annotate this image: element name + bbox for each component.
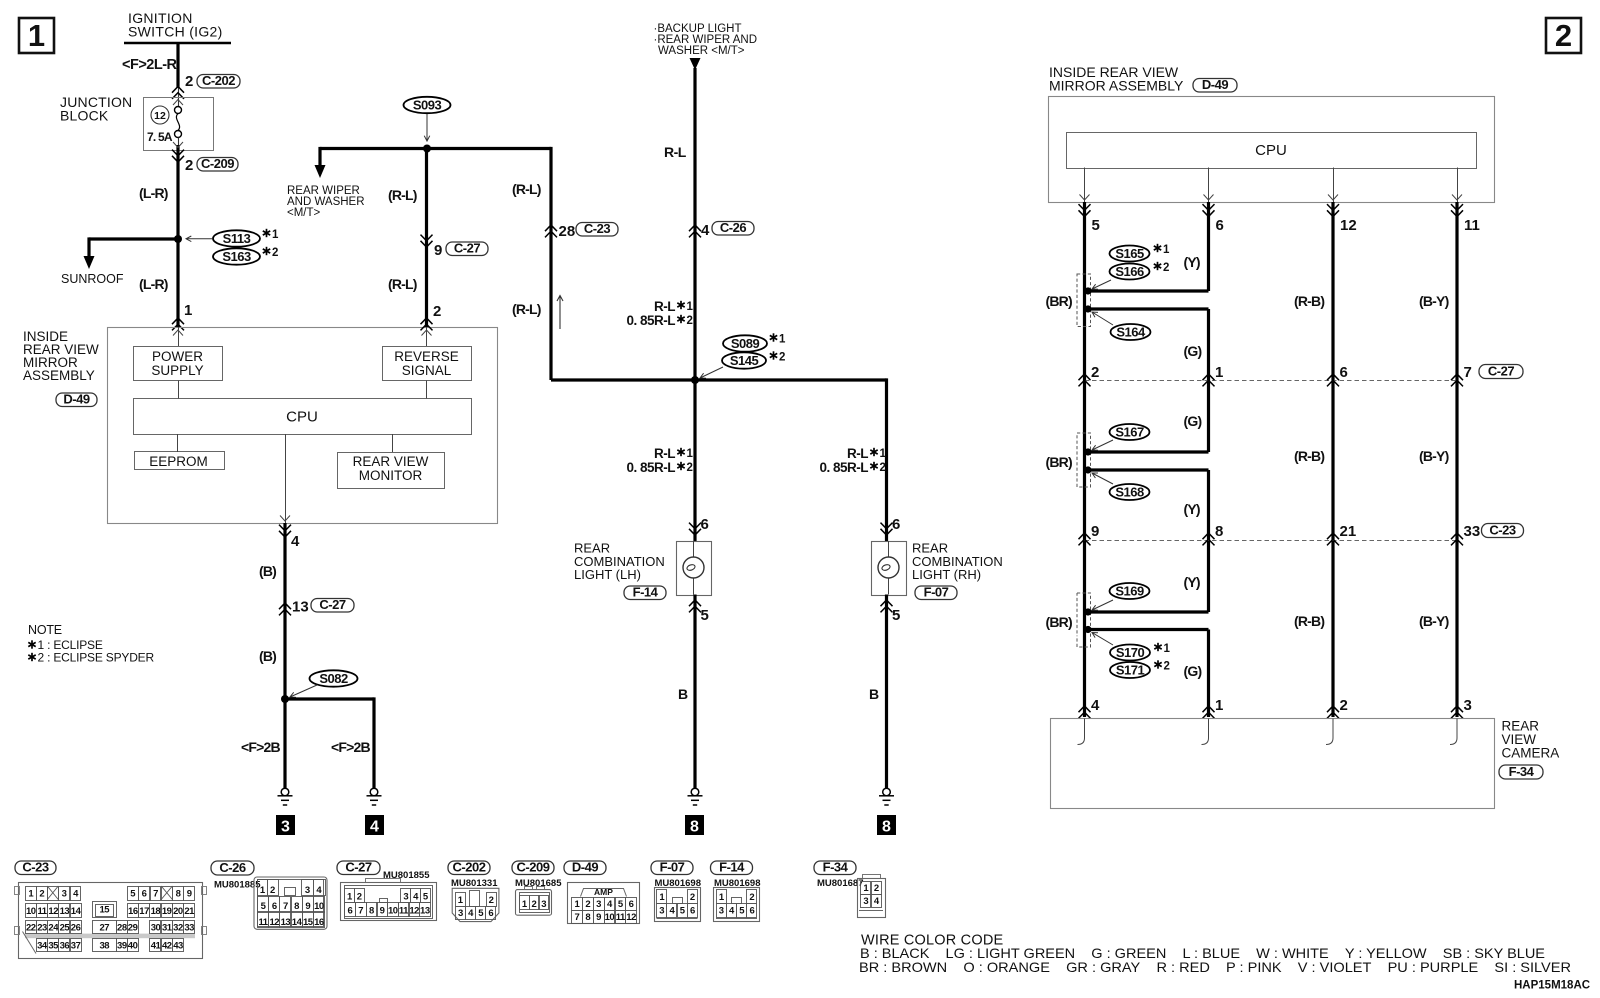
svg-text:MU801855: MU801855 <box>383 870 430 881</box>
wire B LH to ground <box>693 595 696 789</box>
rear combination light RH <box>872 542 907 596</box>
svg-text:35: 35 <box>48 940 59 951</box>
svg-text:(R-L): (R-L) <box>512 301 541 317</box>
svg-text:(R-L): (R-L) <box>388 187 417 203</box>
svg-text:13: 13 <box>292 599 309 616</box>
wire (B) to ground splice <box>283 523 286 699</box>
svg-text:5: 5 <box>892 607 900 624</box>
wire pin6 segments <box>1207 202 1210 291</box>
svg-text:12: 12 <box>154 110 166 122</box>
connector C-27 pin 9 <box>421 235 433 247</box>
connector F-34 diagram <box>814 861 856 875</box>
svg-text:9: 9 <box>596 912 601 923</box>
svg-text:F-07: F-07 <box>924 585 949 600</box>
rear view camera pins <box>1079 706 1091 718</box>
svg-text:B: B <box>869 686 879 702</box>
svg-text:12: 12 <box>626 912 636 923</box>
svg-text:(G): (G) <box>1184 343 1202 359</box>
svg-text:2: 2 <box>1091 364 1099 381</box>
svg-text:8: 8 <box>585 912 590 923</box>
connector C-26 pin 4 <box>689 225 701 237</box>
svg-text:C-209: C-209 <box>201 156 234 171</box>
svg-text:6: 6 <box>1216 217 1224 234</box>
svg-text:S166: S166 <box>1115 264 1144 279</box>
svg-text:R-L: R-L <box>654 299 675 314</box>
svg-text:13: 13 <box>420 906 430 917</box>
svg-text:C-27: C-27 <box>1488 364 1514 379</box>
svg-text:8: 8 <box>882 819 891 836</box>
svg-text:C-23: C-23 <box>584 221 610 236</box>
svg-text:11: 11 <box>616 912 626 923</box>
svg-text:F-07: F-07 <box>660 860 685 875</box>
svg-text:0. 85R-L: 0. 85R-L <box>626 460 675 475</box>
svg-text:(R-L): (R-L) <box>512 181 541 197</box>
svg-text:(R-B): (R-B) <box>1294 613 1324 629</box>
svg-text:7: 7 <box>358 906 363 917</box>
connector line C-27 (dashed) <box>1085 380 1458 382</box>
svg-text:MU801687: MU801687 <box>817 878 863 889</box>
svg-text:S113: S113 <box>223 231 251 246</box>
svg-text:9: 9 <box>1091 523 1099 540</box>
svg-text:2: 2 <box>489 895 494 906</box>
svg-text:C-26: C-26 <box>219 860 245 875</box>
svg-text:28: 28 <box>559 223 576 240</box>
svg-text:6: 6 <box>142 889 147 900</box>
svg-text:28: 28 <box>117 922 127 933</box>
svg-text:1: 1 <box>687 448 694 460</box>
splice S093 <box>404 97 451 113</box>
svg-text:(B-Y): (B-Y) <box>1419 448 1449 464</box>
svg-text:POWER: POWER <box>152 349 203 364</box>
svg-text:39: 39 <box>117 940 127 951</box>
svg-text:(B): (B) <box>259 563 276 579</box>
svg-text:(R-L): (R-L) <box>388 276 417 292</box>
svg-text:BLOCK: BLOCK <box>60 108 109 124</box>
svg-text:(G): (G) <box>1184 413 1202 429</box>
svg-text:<M/T>: <M/T> <box>287 207 321 219</box>
svg-text:C-23: C-23 <box>1489 523 1515 538</box>
svg-text:11: 11 <box>1464 217 1480 234</box>
page index box 2 <box>1546 18 1581 53</box>
svg-text:2: 2 <box>1555 18 1572 53</box>
page index box 1 <box>19 18 54 53</box>
svg-text:9: 9 <box>380 906 385 917</box>
svg-text:2: 2 <box>357 891 362 902</box>
connector C-202 diagram <box>448 861 490 875</box>
svg-text:22: 22 <box>26 922 36 933</box>
svg-text:3: 3 <box>281 819 290 836</box>
svg-text:C-27: C-27 <box>319 597 345 612</box>
svg-text:S167: S167 <box>1115 425 1144 440</box>
svg-text:S168: S168 <box>1115 485 1144 500</box>
svg-text:3: 3 <box>719 906 724 917</box>
svg-text:3: 3 <box>541 899 546 910</box>
svg-text:(R-B): (R-B) <box>1294 448 1324 464</box>
svg-text:2: 2 <box>433 303 441 320</box>
branch wire to sunroof <box>89 237 178 240</box>
arrow S113 to node <box>186 236 212 242</box>
svg-text:33: 33 <box>1464 523 1481 540</box>
svg-text:16: 16 <box>314 917 324 928</box>
svg-text:ASSEMBLY: ASSEMBLY <box>23 368 95 383</box>
svg-text:R-L: R-L <box>654 446 675 461</box>
svg-text:2: 2 <box>272 247 278 259</box>
svg-text:17: 17 <box>139 906 149 917</box>
svg-text:R-L: R-L <box>847 446 868 461</box>
svg-text:6: 6 <box>348 906 353 917</box>
svg-text:C-202: C-202 <box>202 73 235 88</box>
svg-text:43: 43 <box>173 940 183 951</box>
svg-text:CAMERA: CAMERA <box>1502 746 1560 761</box>
svg-text:REVERSE: REVERSE <box>394 349 459 364</box>
svg-text:(B): (B) <box>259 648 276 664</box>
svg-text:1: 1 <box>1215 364 1223 381</box>
svg-text:7: 7 <box>283 901 288 912</box>
svg-text:MIRROR ASSEMBLY: MIRROR ASSEMBLY <box>1049 78 1184 94</box>
svg-text:20: 20 <box>173 906 183 917</box>
svg-text:3: 3 <box>305 885 310 896</box>
ground (right) <box>370 788 378 796</box>
node S165/S166 <box>1084 287 1091 294</box>
svg-text:D-49: D-49 <box>572 860 598 875</box>
ground ref 8 RH <box>877 815 896 835</box>
fuse 12 (7.5A) <box>151 106 169 124</box>
svg-text:4: 4 <box>370 819 379 836</box>
svg-text:40: 40 <box>128 940 138 951</box>
svg-text:7. 5A: 7. 5A <box>147 130 173 144</box>
splice S163 (*2) <box>213 248 260 264</box>
wire B RH to ground <box>885 595 888 789</box>
svg-text:BR : BROWN O : ORANGE GR: BR : BROWN O : ORANGE GR : GRAY R : RED … <box>859 959 1571 975</box>
pin 5 LH <box>689 600 701 612</box>
ground ref 8 LH <box>685 815 704 835</box>
svg-text:5: 5 <box>701 607 709 624</box>
connector D-49 diagram <box>564 861 606 875</box>
svg-text:9: 9 <box>434 242 442 259</box>
svg-text:MONITOR: MONITOR <box>359 468 423 483</box>
svg-text:MU801685: MU801685 <box>515 878 562 889</box>
ground branch wires <box>285 697 374 700</box>
svg-text:2: 2 <box>687 315 693 327</box>
svg-text:27: 27 <box>99 922 109 933</box>
connector C-209 diagram <box>512 861 554 875</box>
svg-text:3: 3 <box>863 896 868 907</box>
svg-text:1: 1 <box>779 334 786 346</box>
svg-text:6: 6 <box>629 899 634 910</box>
cpu output stubs <box>1084 168 1086 203</box>
svg-text:C-209: C-209 <box>517 860 550 875</box>
svg-text:S145: S145 <box>730 353 759 368</box>
svg-text:19: 19 <box>162 906 172 917</box>
svg-text:10: 10 <box>26 906 36 917</box>
svg-text:D-49: D-49 <box>63 392 89 407</box>
svg-text:30: 30 <box>151 922 161 933</box>
svg-text:(BR): (BR) <box>1046 454 1072 470</box>
node S168 <box>1084 466 1091 473</box>
svg-text:6: 6 <box>892 516 900 533</box>
wire pin11 (B-Y) full drop <box>1455 202 1458 717</box>
svg-text:3: 3 <box>1464 697 1472 714</box>
splice S113 (*1) <box>213 230 260 246</box>
svg-text:7: 7 <box>575 912 580 923</box>
ignition switch bus line <box>124 42 231 45</box>
svg-text:S171: S171 <box>1116 663 1145 678</box>
node S167 <box>1084 448 1091 455</box>
svg-text:10: 10 <box>605 912 615 923</box>
svg-text:S082: S082 <box>319 671 348 686</box>
svg-text:2: 2 <box>39 889 44 900</box>
svg-text:2: 2 <box>1163 262 1169 274</box>
splice S166 (*2) <box>1110 264 1150 280</box>
svg-text:S165: S165 <box>1115 246 1144 261</box>
svg-text:HAP15M18AC: HAP15M18AC <box>1514 980 1590 992</box>
svg-text:31: 31 <box>162 922 173 933</box>
svg-text:1: 1 <box>1215 697 1223 714</box>
svg-text:3: 3 <box>62 889 67 900</box>
svg-text:C-27: C-27 <box>345 860 371 875</box>
pins 5 6 12 11 <box>1079 204 1091 216</box>
svg-text:6: 6 <box>1340 364 1348 381</box>
svg-text:37: 37 <box>71 940 81 951</box>
svg-text:CPU: CPU <box>1255 142 1287 159</box>
wire IG2 to junction block <box>176 43 179 88</box>
svg-text:2: 2 <box>185 157 193 174</box>
svg-text:42: 42 <box>162 940 172 951</box>
connector chevron C-202 <box>172 87 184 99</box>
svg-text:12: 12 <box>409 906 419 917</box>
svg-text:C-27: C-27 <box>454 241 480 256</box>
svg-text:S169: S169 <box>1115 584 1144 599</box>
svg-text:1: 1 <box>880 448 887 460</box>
splice S171 (*2) <box>1110 662 1150 678</box>
svg-text:SWITCH (IG2): SWITCH (IG2) <box>128 24 223 40</box>
svg-text:F-14: F-14 <box>633 585 659 600</box>
connector F-07 diagram <box>651 861 693 875</box>
svg-text:4: 4 <box>701 222 710 239</box>
svg-text:13: 13 <box>60 906 70 917</box>
node S169 <box>1084 608 1091 615</box>
svg-text:38: 38 <box>99 940 109 951</box>
svg-text:24: 24 <box>48 922 59 933</box>
svg-text:29: 29 <box>128 922 138 933</box>
svg-text:(L-R): (L-R) <box>139 276 168 292</box>
svg-text:7: 7 <box>153 889 158 900</box>
current direction arrow <box>557 296 563 330</box>
ground ref 3 <box>276 815 295 835</box>
connector C-23 diagram <box>15 861 56 875</box>
splice S089 / S145 <box>723 335 767 351</box>
ground (left) <box>281 788 289 796</box>
svg-text:9: 9 <box>305 901 310 912</box>
svg-text:(Y): (Y) <box>1184 574 1200 590</box>
svg-text:23: 23 <box>37 922 47 933</box>
feed arrow <box>690 58 701 70</box>
svg-text:3: 3 <box>659 906 664 917</box>
horizontal wire into junction S089 <box>551 378 695 381</box>
svg-text:9: 9 <box>187 889 192 900</box>
svg-text:F-14: F-14 <box>719 860 745 875</box>
svg-text:8: 8 <box>294 901 299 912</box>
splice S165 (*1) <box>1110 246 1150 262</box>
svg-text:1: 1 <box>1164 643 1171 655</box>
svg-text:F-34: F-34 <box>1509 764 1535 779</box>
svg-text:2: 2 <box>690 892 695 903</box>
splice S170 (*1) <box>1110 645 1150 661</box>
eeprom block <box>135 452 225 470</box>
svg-text:6: 6 <box>690 906 695 917</box>
svg-text:26: 26 <box>71 922 81 933</box>
svg-text:41: 41 <box>151 940 162 951</box>
svg-text:(BR): (BR) <box>1046 293 1072 309</box>
svg-text:14: 14 <box>292 917 303 928</box>
svg-text:11: 11 <box>399 906 409 917</box>
svg-text:S170: S170 <box>1116 645 1145 660</box>
svg-text:EEPROM: EEPROM <box>149 454 208 469</box>
svg-text:2: 2 <box>585 899 590 910</box>
svg-text:2 : ECLIPSE SPYDER: 2 : ECLIPSE SPYDER <box>38 651 155 665</box>
svg-text:2: 2 <box>1164 661 1170 673</box>
wire pin5 (BR) full drop <box>1083 202 1086 717</box>
svg-text:32: 32 <box>173 922 183 933</box>
svg-text:S093: S093 <box>413 98 442 113</box>
svg-text:10: 10 <box>388 906 398 917</box>
svg-text:12: 12 <box>269 917 279 928</box>
ground ref 4 <box>365 815 384 835</box>
cpu block (right) <box>1067 133 1477 169</box>
svg-text:18: 18 <box>151 906 161 917</box>
svg-text:4: 4 <box>1091 697 1100 714</box>
svg-text:<F>2L-R: <F>2L-R <box>122 57 178 73</box>
svg-text:2: 2 <box>687 462 693 474</box>
svg-text:CPU: CPU <box>286 409 318 426</box>
svg-text:13: 13 <box>281 917 291 928</box>
svg-text:MU801331: MU801331 <box>451 878 498 889</box>
svg-text:12: 12 <box>1340 217 1357 234</box>
svg-text:8: 8 <box>176 889 181 900</box>
svg-text:D-49: D-49 <box>1202 77 1228 92</box>
svg-text:2: 2 <box>270 885 275 896</box>
splice S169 <box>1110 583 1150 599</box>
connector line C-23 (dashed) <box>1085 540 1458 542</box>
pin 5 RH <box>881 600 893 612</box>
svg-text:6: 6 <box>701 516 709 533</box>
svg-text:REAR VIEW: REAR VIEW <box>353 454 429 469</box>
connector F-14 diagram <box>711 861 753 875</box>
splice S164 <box>1111 324 1151 340</box>
svg-text:S164: S164 <box>1116 325 1146 340</box>
svg-text:0. 85R-L: 0. 85R-L <box>626 313 675 328</box>
svg-text:S163: S163 <box>222 249 251 264</box>
ground RH <box>883 788 891 796</box>
svg-text:C-23: C-23 <box>22 860 48 875</box>
power supply block <box>134 347 223 381</box>
svg-text:AMP: AMP <box>594 887 613 897</box>
svg-text:LIGHT (RH): LIGHT (RH) <box>912 567 981 582</box>
node S170/S171 <box>1084 626 1091 633</box>
wire to C-23 pin 28 <box>549 147 552 380</box>
svg-text:NOTE: NOTE <box>28 623 62 637</box>
svg-text:SUNROOF: SUNROOF <box>61 272 124 286</box>
horizontal feed wire <box>320 147 551 150</box>
svg-text:F-34: F-34 <box>823 860 849 875</box>
wire junction to LH light <box>693 380 696 541</box>
svg-text:(B-Y): (B-Y) <box>1419 613 1449 629</box>
rear view camera box <box>1051 719 1495 809</box>
svg-text:7: 7 <box>1464 364 1472 381</box>
svg-text:8: 8 <box>1215 523 1223 540</box>
svg-text:3: 3 <box>596 899 601 910</box>
svg-text:(Y): (Y) <box>1184 501 1200 517</box>
pin 4 below assembly <box>279 525 291 537</box>
pin 2 / connector C-209 <box>172 150 184 162</box>
svg-text:(Y): (Y) <box>1184 254 1200 270</box>
svg-text:5: 5 <box>1092 217 1100 234</box>
svg-text:15: 15 <box>99 905 110 916</box>
svg-text:2: 2 <box>532 899 537 910</box>
wire R-L down <box>693 68 696 380</box>
svg-text:2: 2 <box>779 352 785 364</box>
svg-text:1: 1 <box>184 302 192 319</box>
connector C-27 diagram <box>337 861 380 875</box>
internal wires <box>178 327 180 346</box>
svg-text:(B-Y): (B-Y) <box>1419 293 1449 309</box>
svg-text:B: B <box>678 686 688 702</box>
svg-text:(R-B): (R-B) <box>1294 293 1324 309</box>
wire pin12 (R-B) full drop <box>1331 202 1334 717</box>
svg-text:3: 3 <box>403 891 408 902</box>
svg-text:SIGNAL: SIGNAL <box>402 363 452 378</box>
branch to rear wiper and washer <box>318 147 321 166</box>
svg-text:C-26: C-26 <box>720 220 746 235</box>
svg-text:15: 15 <box>303 917 314 928</box>
svg-text:33: 33 <box>184 922 194 933</box>
svg-text:2: 2 <box>749 892 754 903</box>
splice S168 <box>1110 484 1150 500</box>
svg-text:<F>2B: <F>2B <box>331 739 370 755</box>
wire (L-R) down to mirror assembly <box>176 150 179 327</box>
svg-text:2: 2 <box>874 883 879 894</box>
dashed splice zone 1 <box>1077 274 1091 327</box>
svg-text:<F>2B: <F>2B <box>241 739 280 755</box>
svg-text:(BR): (BR) <box>1046 614 1072 630</box>
svg-text:36: 36 <box>60 940 70 951</box>
svg-text:6: 6 <box>749 906 754 917</box>
svg-text:3: 3 <box>458 908 463 919</box>
svg-text:25: 25 <box>60 922 71 933</box>
reverse signal block <box>383 347 472 381</box>
wire S093 to reverse signal pin 2 <box>425 149 428 328</box>
splice node dot <box>174 235 182 243</box>
svg-text:1: 1 <box>1163 244 1170 256</box>
svg-text:SUPPLY: SUPPLY <box>151 363 203 378</box>
rear view monitor block <box>338 453 445 489</box>
dashed splice zone 2 <box>1077 433 1091 487</box>
junction node <box>691 376 699 384</box>
dashed splice zone 3 <box>1077 593 1091 647</box>
cpu block (left) <box>134 399 472 435</box>
svg-text:11: 11 <box>259 917 269 928</box>
connector C-26 diagram <box>211 861 254 875</box>
svg-text:21: 21 <box>184 906 195 917</box>
svg-text:1: 1 <box>272 229 279 241</box>
svg-text:2: 2 <box>185 73 193 90</box>
svg-text:6: 6 <box>272 901 277 912</box>
ground LH <box>691 788 699 796</box>
connector C-23 pin 28 <box>545 225 557 237</box>
svg-text:(L-R): (L-R) <box>139 185 168 201</box>
svg-text:C-202: C-202 <box>453 860 486 875</box>
rear combination light LH <box>677 542 712 596</box>
